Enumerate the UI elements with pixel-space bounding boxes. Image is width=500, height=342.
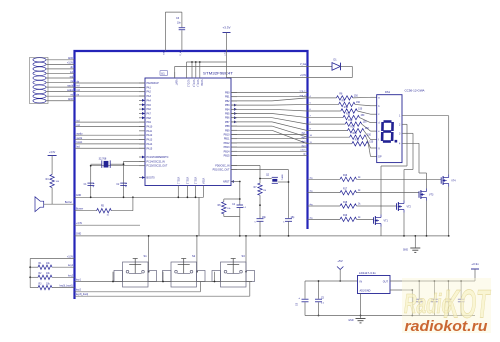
- pushbutton S1: [114, 254, 157, 287]
- wire PB1: [231, 95, 308, 97]
- wire VT sources to GND rail: [381, 187, 450, 237]
- svg-text:R14: R14: [353, 133, 358, 135]
- wire to VT1 gate: [357, 218, 374, 220]
- transistor VT1: [374, 215, 389, 227]
- wire key1 (outside): [52, 265, 75, 267]
- svg-text:key2: key2: [76, 290, 82, 292]
- wire digit drive 1: [308, 177, 341, 179]
- wire digit 3 route: [402, 133, 413, 200]
- wire PB13: [231, 145, 308, 147]
- svg-text:key2: key2: [68, 275, 74, 277]
- wire key3 (inside): [75, 282, 250, 297]
- wire PB15: [231, 154, 308, 156]
- svg-text:PA5: PA5: [147, 104, 152, 107]
- svg-text:PB13: PB13: [224, 146, 231, 149]
- power wire +3.3V pullups: [29, 256, 74, 287]
- capacitor C4: [232, 204, 247, 209]
- wire connector pin 2 (+3,3V): [46, 63, 74, 65]
- capacitor C6 100u: [297, 281, 309, 316]
- svg-text:PA0/WKUP: PA0/WKUP: [147, 82, 160, 85]
- wire regulator ground: [360, 294, 362, 317]
- resistor R16: [340, 175, 361, 181]
- svg-text:VSS_3: VSS_3: [194, 177, 196, 185]
- wire key1 (inside): [75, 272, 253, 283]
- svg-text:PA6: PA6: [147, 108, 152, 111]
- svg-text:PA3: PA3: [147, 95, 152, 98]
- power symbol +3.3V (PSU out): [471, 262, 479, 281]
- svg-text:PB15: PB15: [224, 155, 231, 158]
- wire VBAT to diode net: [175, 63, 308, 78]
- voltage regulator U2 LD1117-3.3V: [358, 271, 391, 294]
- svg-text:ADJ/GND: ADJ/GND: [360, 290, 371, 293]
- svg-text:GND: GND: [68, 58, 73, 60]
- svg-text:colon: colon: [300, 150, 306, 152]
- ground symbol (PSU): [348, 316, 365, 323]
- svg-text:PB0: PB0: [225, 92, 230, 95]
- svg-text:VDD_3: VDD_3: [187, 80, 189, 88]
- wire PB0: [231, 91, 308, 93]
- svg-text:swdio: swdio: [67, 90, 74, 92]
- svg-text:GND: GND: [403, 250, 408, 252]
- svg-text:8MHz: 8MHz: [281, 175, 283, 181]
- svg-text:+3.3v: +3.3v: [471, 262, 479, 266]
- resistor R12: [345, 120, 367, 126]
- capacitor C7 0.1: [416, 280, 423, 315]
- svg-text:+3,3V: +3,3V: [67, 63, 74, 65]
- wire PA13: [75, 138, 146, 140]
- svg-text:key1: key1: [76, 279, 82, 281]
- capacitor C3: [163, 12, 185, 56]
- svg-text:swclk: swclk: [67, 85, 73, 87]
- resistor R8: [336, 94, 358, 100]
- power symbol +3.3V (MCU): [223, 26, 231, 56]
- wire PA15: [75, 147, 146, 149]
- svg-text:S3: S3: [242, 254, 246, 258]
- capacitor C8 0.1: [431, 280, 438, 315]
- svg-text:seg_e: seg_e: [300, 91, 307, 93]
- capacitor C18a 18p: [254, 217, 266, 237]
- svg-text:R13: R13: [350, 126, 355, 128]
- svg-text:PA13: PA13: [147, 139, 153, 142]
- svg-text:PC14/OSC32_IN: PC14/OSC32_IN: [147, 160, 165, 163]
- wire PA2: [75, 89, 146, 92]
- svg-text:PA15: PA15: [147, 147, 153, 150]
- wire PA0: [75, 80, 146, 83]
- svg-text:key3(_boot): key3(_boot): [76, 293, 88, 296]
- wire PB14: [231, 150, 308, 152]
- wire digit drive 4: [308, 217, 341, 219]
- wire PC15 to crystal: [91, 165, 145, 167]
- svg-text:VT4: VT4: [451, 180, 456, 183]
- wire regulator output: [390, 280, 475, 282]
- wire key2 (outside): [52, 275, 75, 277]
- svg-text:PB1: PB1: [225, 96, 230, 99]
- svg-text:dtr: dtr: [77, 80, 80, 83]
- wire key2 (inside): [75, 282, 201, 292]
- svg-text:PD0/OSC_IN: PD0/OSC_IN: [215, 165, 229, 168]
- svg-text:VSS_1: VSS_1: [176, 177, 178, 185]
- svg-text:PA7: PA7: [147, 112, 152, 115]
- wire PA9: [75, 119, 146, 122]
- pushbutton S3: [212, 254, 255, 287]
- wire segment c: [231, 109, 341, 111]
- svg-text:PC15/OSC32_OUT: PC15/OSC32_OUT: [147, 165, 168, 168]
- resistor R4: [46, 175, 60, 188]
- svg-text:GND: GND: [76, 195, 81, 197]
- svg-text:seg_d: seg_d: [300, 95, 307, 97]
- svg-text:PB8: PB8: [225, 125, 230, 128]
- svg-text:PA14: PA14: [147, 143, 153, 146]
- svg-text:PA10: PA10: [147, 126, 153, 129]
- svg-text:V_bat: V_bat: [300, 63, 306, 66]
- svg-text:BOOT0: BOOT0: [147, 177, 156, 180]
- wire key3 (outside): [52, 285, 75, 288]
- svg-text:R10: R10: [344, 107, 349, 109]
- wire PSU input: [305, 280, 358, 282]
- resistor R13: [347, 126, 369, 132]
- svg-text:PB14: PB14: [224, 150, 231, 153]
- svg-text:U1: U1: [161, 72, 165, 76]
- svg-text:R17: R17: [343, 188, 348, 190]
- speaker BA1: [35, 188, 75, 212]
- resistor R17: [340, 188, 361, 194]
- resistor R1: [30, 263, 52, 270]
- wire to display pin b: [355, 104, 377, 105]
- svg-text:PA11: PA11: [147, 130, 153, 133]
- wire digit drive 3: [308, 204, 341, 206]
- capacitor C9 0.1: [445, 280, 452, 315]
- digit 8 glyph: [382, 122, 397, 143]
- power symbol +3.3V (buzzer): [48, 151, 57, 175]
- wire digit drive 2: [308, 191, 341, 193]
- svg-text:GND: GND: [76, 234, 81, 236]
- capacitor C18b 18p: [283, 217, 295, 237]
- svg-text:VT1: VT1: [384, 220, 389, 223]
- svg-text:Buzzer: Buzzer: [65, 201, 72, 204]
- svg-text:PB3: PB3: [225, 104, 230, 107]
- transistor VT3: [419, 189, 434, 201]
- svg-text:S2: S2: [192, 254, 196, 258]
- svg-text:PB6: PB6: [225, 117, 230, 120]
- crystal Q2 8MHz: [259, 175, 289, 184]
- wire PB11: [231, 137, 308, 139]
- svg-text:key3(_boot1): key3(_boot1): [60, 285, 74, 288]
- wire connector pin 8 (swdio): [46, 90, 74, 92]
- microcontroller U1 STM32F103C4T: [139, 71, 237, 198]
- wire connector pin 10 (GND): [46, 99, 74, 101]
- svg-text:PC13/TAMPER/RTC: PC13/TAMPER/RTC: [147, 156, 169, 159]
- svg-text:+3.3V: +3.3V: [223, 26, 231, 30]
- svg-text:32,768: 32,768: [99, 158, 107, 161]
- wire digit 1 route: [402, 116, 449, 175]
- wire connector pin 1 (GND): [46, 58, 74, 60]
- capacitor C10 0.1: [458, 280, 465, 315]
- svg-text:dtr: dtr: [70, 66, 73, 69]
- svg-text:PB5: PB5: [225, 113, 230, 116]
- svg-text:PB12: PB12: [224, 142, 231, 145]
- wire PB10: [231, 133, 308, 135]
- wire NRST: [231, 181, 241, 237]
- svg-text:PB10: PB10: [224, 134, 231, 137]
- wire buttons common: [148, 235, 247, 273]
- wire PC14 to crystal: [124, 160, 146, 162]
- wire to display pin a: [353, 96, 377, 99]
- svg-text:radiokot.ru: radiokot.ru: [405, 319, 488, 335]
- svg-text:PB2: PB2: [225, 100, 230, 103]
- svg-text:CC56-12-GWA: CC56-12-GWA: [405, 89, 425, 93]
- svg-text:+: +: [298, 296, 300, 300]
- display DS1 CC56-12-GWA: [377, 89, 425, 163]
- svg-text:+3,3V: +3,3V: [76, 223, 83, 225]
- wire connector pin 7 (swclk): [46, 85, 74, 87]
- svg-text:OUT: OUT: [383, 280, 389, 283]
- resistor R10: [341, 107, 363, 113]
- svg-text:VDDA: VDDA: [200, 80, 203, 87]
- svg-text:GND: GND: [68, 99, 73, 101]
- svg-text:swdio: swdio: [77, 134, 84, 136]
- svg-text:VSSA: VSSA: [202, 178, 205, 185]
- wire to display pin DP: [368, 144, 376, 157]
- svg-text:R16: R16: [343, 175, 348, 177]
- svg-text:PB7: PB7: [225, 121, 230, 124]
- wire digit 2 route: [381, 124, 407, 214]
- svg-text:STM32F98C4T: STM32F98C4T: [203, 72, 233, 76]
- wire PB12: [231, 141, 308, 143]
- svg-text:rst: rst: [70, 94, 73, 97]
- resistor R14: [350, 133, 372, 139]
- wire PD1 to crystal: [231, 170, 289, 219]
- wire to display pin g: [366, 137, 377, 148]
- ground symbol (display driver): [403, 235, 420, 252]
- power symbol +5V: [337, 259, 343, 282]
- wire VDD rail: [187, 51, 227, 78]
- svg-text:VDD_2: VDD_2: [192, 80, 194, 88]
- capacitor C2: [116, 183, 126, 188]
- diode D1: [308, 59, 353, 78]
- svg-text:PA2: PA2: [147, 91, 152, 94]
- svg-text:NRST: NRST: [223, 181, 230, 184]
- wire to display pin f: [364, 131, 377, 140]
- transistor VT2: [397, 201, 412, 213]
- resistor R18: [340, 202, 361, 208]
- wire connector pin 6 (rts): [46, 80, 74, 83]
- svg-text:GND: GND: [163, 50, 165, 55]
- wire PA10: [75, 124, 146, 127]
- transistor VT4: [441, 175, 456, 187]
- wire GND main rail: [75, 234, 449, 236]
- schematic block boundary: [75, 51, 308, 299]
- wire segment d: [231, 114, 343, 118]
- watermark radiokot: [402, 278, 491, 335]
- wire connector pin 5 (rxd): [46, 75, 74, 78]
- resistor R11: [343, 113, 365, 119]
- wire segment e: [231, 118, 345, 124]
- resistor R7: [254, 183, 267, 218]
- wire to display pin e: [362, 124, 377, 131]
- svg-text:VSS_2: VSS_2: [185, 177, 187, 185]
- svg-text:VT2: VT2: [407, 206, 412, 209]
- wire connector pin 4 (txd): [46, 71, 74, 74]
- resistor R19: [340, 215, 361, 221]
- resistor R3: [30, 283, 52, 290]
- wire digit 4 route: [402, 143, 427, 188]
- svg-text:PA8: PA8: [147, 117, 152, 120]
- wire PA1: [75, 85, 146, 88]
- svg-text:VDD_1: VDD_1: [196, 80, 198, 88]
- svg-text:swclk: swclk: [77, 138, 83, 140]
- svg-text:key1: key1: [68, 265, 74, 267]
- svg-text:VT3: VT3: [429, 194, 434, 197]
- svg-text:VBAT: VBAT: [175, 80, 178, 86]
- capacitor C5 0.1: [315, 280, 325, 316]
- svg-text:IN: IN: [360, 280, 363, 283]
- svg-text:PB9: PB9: [225, 129, 230, 132]
- wire segment a: [231, 96, 336, 101]
- svg-text:R15: R15: [355, 140, 360, 142]
- resistor R5: [75, 197, 133, 216]
- wire PA14: [75, 141, 146, 144]
- svg-text:LD1117-3.3v: LD1117-3.3v: [359, 271, 376, 275]
- wire segment f: [231, 122, 347, 131]
- wire to display pin d: [360, 118, 377, 123]
- resistor R15: [352, 140, 374, 146]
- wire +3.3V to diode: [227, 75, 308, 77]
- wire segment DP: [231, 130, 352, 143]
- svg-text:PB11: PB11: [224, 138, 230, 141]
- svg-text:+5V: +5V: [337, 259, 342, 263]
- wire PA12: [75, 134, 146, 136]
- svg-text:+3,3V: +3,3V: [67, 256, 74, 258]
- wire to VT4 gate: [357, 178, 442, 180]
- svg-text:PA1: PA1: [147, 86, 152, 89]
- wire GND rail upper: [75, 195, 204, 236]
- svg-text:V_bat: V_bat: [179, 50, 182, 56]
- wire PD0 to crystal: [231, 166, 260, 184]
- svg-text:PD1/OSC_OUT: PD1/OSC_OUT: [213, 169, 230, 172]
- wire to VT2 gate: [357, 205, 397, 207]
- resistor R2: [30, 273, 52, 280]
- wire PSU bottom rail: [305, 315, 475, 317]
- svg-text:boot1: boot1: [77, 141, 83, 144]
- svg-text:R18: R18: [343, 202, 348, 204]
- svg-text:PA9: PA9: [147, 121, 152, 124]
- svg-text:DS1: DS1: [385, 90, 391, 94]
- wire +3.3V (left): [75, 223, 141, 225]
- pushbutton S2: [163, 254, 206, 287]
- svg-text:GND: GND: [348, 320, 353, 322]
- crystal Q1 32.768kHz: [90, 158, 125, 198]
- svg-text:PA12: PA12: [147, 134, 153, 137]
- wire to display pin c: [357, 111, 376, 114]
- svg-text:Buzzer: Buzzer: [76, 207, 83, 210]
- svg-text:S1: S1: [144, 254, 148, 258]
- svg-text:PB4: PB4: [225, 108, 230, 111]
- connector X1: [30, 58, 49, 104]
- svg-text:1M: 1M: [263, 190, 266, 192]
- capacitor C1: [84, 183, 94, 188]
- svg-text:R12: R12: [348, 120, 353, 122]
- svg-text:+3,3V: +3,3V: [300, 75, 307, 77]
- wire connector pin 3 (dtr): [46, 66, 74, 69]
- wire Vadj: [390, 289, 413, 316]
- wire to VT3 gate: [357, 192, 420, 194]
- wire PA3: [75, 93, 146, 96]
- resistor R6: [218, 198, 241, 216]
- svg-text:PA4: PA4: [147, 99, 152, 102]
- svg-text:+3,3V: +3,3V: [49, 151, 56, 154]
- svg-text:R19: R19: [343, 215, 348, 217]
- wire segment b: [231, 102, 339, 105]
- resistor R9: [339, 100, 361, 106]
- svg-text:DP: DP: [378, 155, 382, 158]
- wire connector pin 9 (rst): [46, 94, 74, 97]
- wire segment g: [231, 126, 350, 137]
